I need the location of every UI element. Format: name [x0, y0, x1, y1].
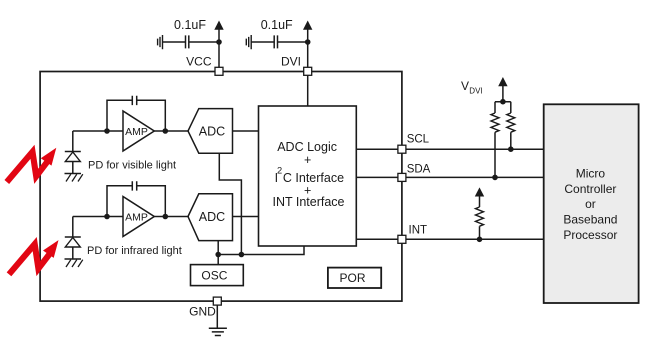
- svg-text:SDA: SDA: [407, 163, 431, 175]
- svg-text:V: V: [461, 79, 469, 93]
- svg-text:Baseband: Baseband: [563, 213, 617, 227]
- svg-text:PD for visible light: PD for visible light: [88, 160, 176, 172]
- svg-text:0.1uF: 0.1uF: [261, 18, 293, 32]
- svg-text:AMP: AMP: [125, 126, 148, 138]
- svg-text:AMP: AMP: [125, 211, 148, 223]
- svg-text:C Interface: C Interface: [283, 171, 344, 185]
- svg-text:0.1uF: 0.1uF: [174, 18, 206, 32]
- svg-text:Processor: Processor: [563, 228, 617, 242]
- svg-text:DVI: DVI: [281, 55, 301, 69]
- svg-text:INT Interface: INT Interface: [272, 195, 344, 209]
- svg-text:INT: INT: [409, 224, 428, 236]
- svg-text:or: or: [585, 197, 596, 211]
- svg-text:DVI: DVI: [469, 87, 482, 96]
- svg-text:Micro: Micro: [576, 167, 606, 181]
- svg-text:VCC: VCC: [186, 55, 212, 69]
- svg-text:ADC: ADC: [199, 210, 225, 224]
- svg-text:OSC: OSC: [201, 268, 227, 282]
- svg-text:PD for infrared light: PD for infrared light: [87, 245, 182, 257]
- svg-text:+: +: [304, 153, 311, 167]
- svg-text:POR: POR: [339, 271, 365, 285]
- svg-text:SCL: SCL: [407, 133, 430, 145]
- svg-text:Controller: Controller: [564, 182, 616, 196]
- svg-text:ADC: ADC: [199, 125, 225, 139]
- svg-text:GND: GND: [189, 305, 216, 319]
- svg-text:2: 2: [277, 165, 282, 175]
